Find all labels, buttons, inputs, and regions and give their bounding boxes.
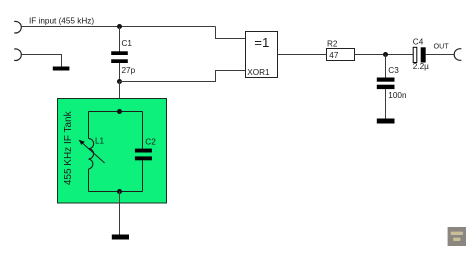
svg-text:XOR1: XOR1 — [247, 68, 270, 77]
node junction mid — [117, 79, 122, 84]
wire XOR output — [278, 54, 328, 56]
ground GND2 — [112, 235, 129, 240]
wire to XOR input 2 — [120, 71, 246, 82]
node junction out — [383, 52, 388, 57]
wire C3 to ground — [385, 89, 387, 118]
inductor L1 — [79, 137, 105, 170]
capacitor C3 — [377, 66, 407, 100]
svg-text:IF input (455 kHz): IF input (455 kHz) — [29, 16, 94, 25]
svg-text:C2: C2 — [145, 137, 156, 146]
port IN1 (IF input) — [14, 21, 21, 33]
wire down to C3 — [385, 55, 387, 78]
wire shield to ground — [21, 55, 61, 67]
wire tank to ground — [119, 192, 121, 235]
ground GND1 — [53, 67, 70, 71]
tank block (green) — [58, 99, 167, 204]
wire top rail — [21, 26, 215, 28]
svg-text:455 KHz IF Tank: 455 KHz IF Tank — [63, 110, 74, 185]
svg-text:27p: 27p — [122, 66, 136, 75]
svg-text:C3: C3 — [388, 66, 399, 75]
svg-text:=1: =1 — [254, 35, 269, 50]
capacitor C2 — [135, 137, 156, 160]
ground GND3 — [377, 119, 395, 124]
wire C1 top — [119, 27, 121, 52]
logo badge — [448, 227, 466, 246]
svg-text:2.2µ: 2.2µ — [413, 62, 429, 71]
wire C4 to OUT — [426, 54, 455, 56]
port OUT — [454, 49, 461, 61]
svg-text:L1: L1 — [95, 137, 105, 146]
wire down into tank — [119, 82, 121, 112]
wire R2 to C4 — [355, 54, 414, 56]
svg-text:100n: 100n — [388, 91, 407, 100]
node tank top — [117, 109, 122, 114]
svg-text:C4: C4 — [413, 38, 424, 47]
wire C1 bottom — [119, 63, 121, 82]
port IN2 (shield) — [14, 49, 21, 61]
capacitor C4 (polarized) — [413, 38, 429, 72]
node junction top — [117, 24, 122, 29]
wire to XOR input 1 — [216, 27, 246, 39]
svg-text:47: 47 — [329, 51, 339, 60]
capacitor C1 — [111, 39, 135, 75]
svg-text:R2: R2 — [327, 40, 338, 49]
gate XOR1 — [246, 32, 278, 78]
svg-text:OUT: OUT — [434, 42, 450, 51]
tank loop wires — [89, 112, 143, 192]
svg-text:C1: C1 — [122, 39, 133, 48]
node tank bottom — [117, 189, 122, 194]
resistor R2 — [327, 40, 355, 61]
